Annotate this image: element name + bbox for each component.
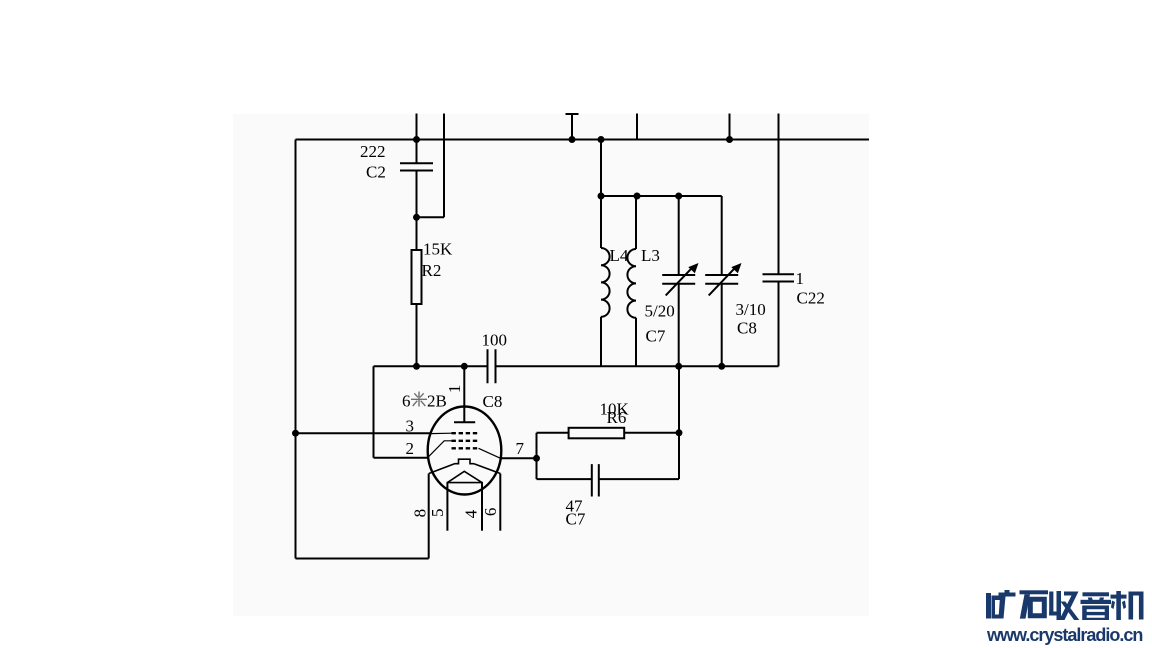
char 矿 [986, 590, 1016, 619]
grid1 connection [431, 432, 452, 434]
wire: bottom return [296, 558, 429, 560]
wire: middle rail (grid side) [374, 365, 779, 367]
stub above bus (no junction) [636, 114, 638, 140]
resistor R6 leads [537, 432, 680, 434]
wire: bus to tank top [600, 140, 602, 197]
wire: pin4 lead [481, 483, 483, 531]
junction L4 top [598, 193, 605, 200]
svg-text:R6: R6 [607, 408, 627, 427]
wire: pin6 lead [499, 474, 501, 531]
wire: C2 top stub [416, 114, 418, 164]
grid row 1 [452, 432, 480, 434]
junction C7 top [675, 193, 682, 200]
svg-text:6: 6 [481, 508, 500, 517]
wire: pin3 lead [296, 432, 431, 434]
svg-text:3: 3 [406, 417, 415, 436]
wire: pin7 node vertical [536, 433, 538, 479]
svg-text:8: 8 [410, 509, 429, 518]
svg-text:L3: L3 [641, 246, 660, 265]
capacitor C22 [763, 274, 795, 281]
node pin7 [533, 455, 540, 462]
resistor R2 [412, 250, 422, 304]
junction C2 bottom node [413, 214, 420, 221]
wire: bypass stub right of C2 [417, 114, 445, 218]
junction antenna on bus [569, 136, 576, 143]
junction C2 top on bus [413, 136, 420, 143]
junction C8 bottom [718, 363, 725, 370]
variable capacitor C8 3/10 [705, 196, 738, 366]
wire: pin7 lead [501, 457, 537, 459]
grid3 to pin7 diagonal [479, 448, 501, 458]
svg-text:5/20: 5/20 [645, 302, 675, 321]
junction R6 right [676, 429, 683, 436]
svg-text:1: 1 [445, 385, 464, 394]
stub above bus (junction) [729, 114, 731, 140]
junction R2 on mid rail [413, 363, 420, 370]
svg-text:C22: C22 [797, 289, 825, 308]
svg-text:100: 100 [482, 331, 508, 350]
capacitor C7 47 [592, 464, 599, 496]
svg-text:5: 5 [428, 508, 447, 517]
char 机 [1111, 591, 1144, 620]
var cap C7 arrowhead [688, 263, 698, 273]
capacitor C8 100 [488, 349, 496, 383]
char 音 [1081, 592, 1112, 620]
svg-text:1: 1 [796, 269, 805, 288]
wire: C2 to R2 [416, 171, 418, 251]
junction C7 bottom [675, 363, 682, 370]
schematic paper background [233, 114, 869, 616]
variable capacitor C7 5/20 [662, 196, 695, 366]
grid row 3 [452, 447, 480, 449]
junction right stub on bus [726, 136, 733, 143]
wire: pin1 anode lead [463, 366, 465, 422]
wire: tank top rail [601, 195, 722, 197]
char 石 [1020, 590, 1049, 618]
junction pin1 on mid rail [461, 363, 468, 370]
junction tank feed on bus [598, 136, 605, 143]
resistor R6 body [569, 428, 625, 439]
capacitor C2 [400, 163, 433, 170]
inductor L4 [601, 196, 610, 366]
svg-text:L4: L4 [610, 246, 629, 265]
svg-text:2B: 2B [427, 392, 447, 411]
grid2 connection diagonal [428, 441, 451, 457]
char 收 [1049, 591, 1079, 620]
wire: pin2 riser and lead [374, 366, 429, 458]
wire: pin5 lead [446, 483, 448, 531]
logo 矿石收音机 [983, 586, 1152, 626]
wire: R2 bottom lead [416, 304, 418, 366]
svg-text:R2: R2 [422, 261, 442, 280]
wire: tank to R6 vertical [678, 366, 680, 479]
cathode left diagonal [429, 464, 455, 474]
svg-text:2: 2 [406, 439, 415, 458]
filament heater [447, 471, 484, 482]
svg-text:6: 6 [402, 392, 411, 411]
glyph 米 in tube label [411, 392, 427, 407]
wire: left border vertical [295, 140, 297, 559]
junction L3 top [634, 193, 641, 200]
var cap C8 arrowhead [731, 263, 741, 273]
wire: main top bus [296, 139, 870, 141]
svg-text:4: 4 [462, 509, 481, 518]
tube U1 envelope [428, 407, 502, 495]
junction pin3 on left border [292, 430, 299, 437]
antenna T stub [566, 114, 579, 140]
cathode hat [455, 459, 475, 464]
svg-text:C7: C7 [566, 510, 586, 529]
svg-text:7: 7 [516, 439, 525, 458]
grid row 2 [452, 440, 480, 442]
svg-text:3/10: 3/10 [736, 300, 766, 319]
svg-text:C7: C7 [646, 327, 666, 346]
wire: C22 branch from top [778, 114, 780, 275]
svg-text:C8: C8 [737, 319, 757, 338]
svg-text:222: 222 [360, 142, 386, 161]
svg-text:15K: 15K [423, 240, 453, 259]
wire: C22 bottom lead [778, 282, 780, 367]
cathode right diagonal [474, 464, 500, 474]
anode plate [454, 421, 475, 423]
svg-text:C8: C8 [483, 392, 503, 411]
wire: pin8 lead down [428, 474, 430, 559]
inductor L3 [627, 196, 636, 366]
svg-text:C2: C2 [366, 163, 386, 182]
logo url [987, 625, 1152, 646]
wire: C7 47 leads [537, 478, 680, 480]
